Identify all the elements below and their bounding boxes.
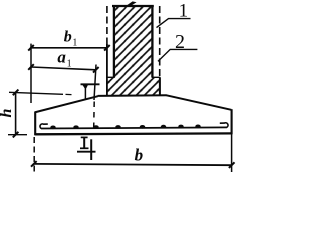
wall right edge <box>151 5 153 77</box>
b dimension line <box>34 164 232 165</box>
leader line for label 2 <box>158 49 197 61</box>
section mark bottom: vertical bar <box>90 139 92 160</box>
wall top edge line <box>112 5 154 7</box>
right foundation step edge (solid) <box>159 77 161 95</box>
b1 tick left <box>28 45 34 51</box>
h tick top <box>13 90 19 96</box>
b left extension (dashed) <box>33 137 35 172</box>
a1 dimension line <box>31 67 96 70</box>
section mark bottom: horizontal bar <box>77 151 96 153</box>
section mark bottom: numeral 1 (serif I) <box>80 137 89 149</box>
main rebar line <box>41 127 227 128</box>
svg-text:b: b <box>64 29 72 46</box>
footing bottom edge <box>34 132 232 135</box>
rebar section dots <box>50 125 200 130</box>
left extension line for b1/a1 <box>30 44 32 103</box>
footing right slope <box>167 95 232 110</box>
footing left edge <box>34 112 36 135</box>
svg-text:1: 1 <box>72 37 77 48</box>
rebar right hook <box>220 123 228 128</box>
right hidden edge (dashed) of foundation wall <box>159 6 161 78</box>
left step ledge <box>107 76 115 78</box>
h dimension line <box>15 92 17 134</box>
left foundation step edge (solid, also b1 extension) <box>106 44 108 95</box>
svg-text:2: 2 <box>175 31 185 53</box>
svg-text:1: 1 <box>179 0 189 21</box>
h top extension dash <box>66 93 72 95</box>
section mark top: horizontal bar <box>81 83 100 85</box>
wall left edge <box>113 5 115 77</box>
wall hatching (brick wall section) <box>107 6 160 95</box>
section line 1-1 dashes through footing <box>93 102 96 134</box>
h tick bottom <box>13 132 19 138</box>
leader line for label 1 <box>157 19 191 28</box>
section mark top: numeral 1 (wedge + stem) <box>82 85 88 88</box>
footing left slope <box>35 96 98 112</box>
footing right edge <box>231 109 233 134</box>
footing top surface <box>98 94 167 97</box>
svg-text:a: a <box>57 48 66 67</box>
svg-text:h: h <box>0 109 15 118</box>
a1 right extension / section line 1-1 (solid upper part) <box>94 65 96 101</box>
h top extension line <box>9 92 63 94</box>
a1 tick right <box>93 67 99 73</box>
left hidden edge (dashed) of foundation wall <box>106 6 108 45</box>
b1 tick right <box>104 45 110 51</box>
a1 tick left <box>28 64 34 70</box>
svg-text:b: b <box>135 145 144 164</box>
svg-text:1: 1 <box>67 58 72 69</box>
b tick left <box>31 161 37 167</box>
b tick right <box>229 162 235 168</box>
b right extension <box>231 134 233 172</box>
b1 dimension line <box>31 47 107 49</box>
right step ledge <box>152 76 160 78</box>
rebar left hook <box>40 124 48 129</box>
h bottom extension line <box>8 134 27 136</box>
break mark above wall top <box>127 1 137 5</box>
